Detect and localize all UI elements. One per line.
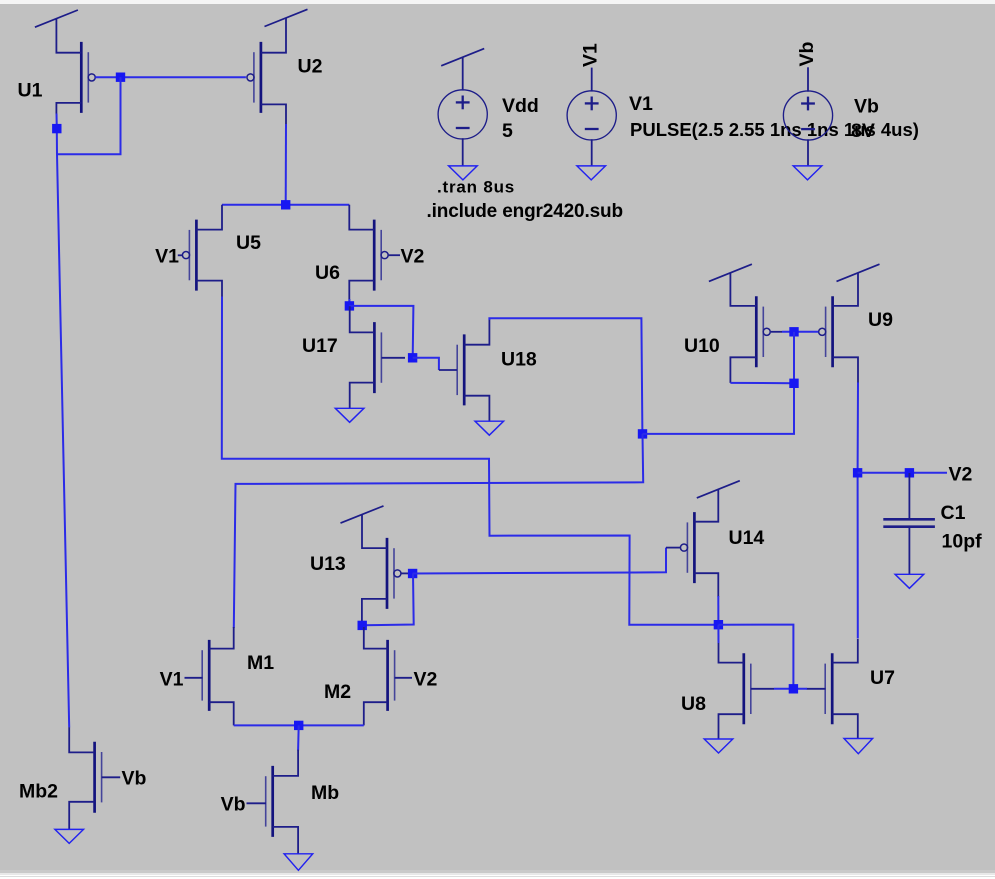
wire junction right and up to U10 drain node [643,383,795,434]
junction U10 drain node [789,379,798,388]
capacitor C1 [883,473,935,575]
svg-text:U6: U6 [315,262,340,284]
junction on U1 gate net [116,73,125,82]
transistor M2 (NMOS, mirrored) [364,627,412,725]
junction U18 drain net [638,429,647,438]
junction tail node [294,721,303,730]
svg-text:.include engr2420.sub: .include engr2420.sub [427,201,623,222]
junction U13 drain / M2 drain node [358,621,367,630]
transistor U1 (PMOS, mirrored) [56,19,95,115]
svg-text:U9: U9 [868,309,893,331]
svg-text:V2: V2 [401,246,425,268]
svg-text:M1: M1 [247,652,274,674]
wire U8/U7 gate node [774,688,807,690]
ground of Mb2 [55,829,84,843]
svg-text:V1: V1 [155,246,179,268]
junction U17 gate node [408,353,417,362]
wire tail node M1/M2 sources [234,724,364,726]
transistor U5 (PMOS) [182,205,222,298]
svg-text:U8: U8 [681,693,706,715]
svg-text:V1: V1 [160,669,184,691]
Vdd rail of U1 [35,10,78,27]
junction below U1 source [52,124,61,133]
wire top of U5/U6 pair [222,204,349,206]
ground of Mb [284,854,313,871]
wire U18 drain up and right to second-stage junction [489,318,642,434]
ground of Vb [793,166,822,180]
ground of U7 [844,739,873,754]
transistor Mb (NMOS) [247,750,299,854]
wire U14 drain node right then down to U8/U7 gate node [718,625,793,689]
svg-text:V1: V1 [629,93,653,115]
wire Vb bottom to ground [807,139,809,166]
wire U1 source down (long slanted run to Mb2 drain) [57,114,70,728]
wire U13 gate node down-left to U13/M2 drain node [362,574,414,626]
junction U14 drain node [714,620,723,629]
wire U14 drain down to node [717,596,719,625]
transistor U6 (PMOS, mirrored) [349,205,400,302]
ground of U18 [475,421,504,435]
wire V1 top lead [591,68,593,92]
svg-text:U14: U14 [729,527,765,549]
transistor Mb2 (NMOS, mirrored) [69,727,120,829]
svg-text:Mb2: Mb2 [19,781,58,803]
svg-text:U18: U18 [501,349,537,371]
junction U6 drain / U17 drain / mirror loop [345,301,354,310]
transistor U2 (PMOS) [247,18,286,125]
transistor M1 (NMOS) [185,627,234,725]
junction U2 drain / U5-U6 sources [281,200,290,209]
svg-text:M2: M2 [324,681,351,703]
Vdd rail of U9 [837,264,880,281]
svg-text:U2: U2 [298,56,323,78]
wire U5 drain long run to U14 drain node [222,297,719,625]
Vdd rail of U14 [697,481,740,498]
wire Vdd top to rail [462,57,464,90]
wire U9 drain down to output node and on to U7 drain [857,383,859,639]
wire Vb top lead [807,67,809,91]
transistor U18 (NMOS) [439,319,490,421]
Vdd rail symbol [441,49,484,66]
junction at C1 tap [905,468,914,477]
wire U13 gate node to U14 gate [413,548,666,574]
svg-text:U5: U5 [236,232,261,254]
wire U1 gate to U2 gate [95,76,246,78]
svg-text:Vb: Vb [854,96,879,118]
junction U8/U7 gate node [789,684,798,693]
voltage source V1 [567,91,616,140]
svg-text:Vb: Vb [221,794,246,816]
wire U17 gate node to U18 gate (with jog) [413,358,439,370]
svg-text:8V: 8V [851,120,875,142]
svg-text:U7: U7 [870,667,895,689]
ground of V1 [577,166,606,180]
ground of U17 [335,408,364,422]
transistor U14 (PMOS) [666,489,718,597]
svg-text:PULSE(2.5 2.55 1ns 1ns 1us 4us: PULSE(2.5 2.55 1ns 1ns 1us 4us) [630,119,919,140]
junction U10/U9 gate node [789,327,798,336]
voltage source Vb [783,91,832,140]
wire U10 drain loop [730,382,794,384]
svg-text:5: 5 [502,120,513,142]
svg-text:Vb: Vb [796,41,818,66]
voltage source Vdd [438,90,487,139]
wire mirror loop right then down to U17 gate node [349,306,413,358]
svg-text:U1: U1 [18,80,43,102]
junction output node [853,468,862,477]
svg-text:V2: V2 [414,669,438,691]
wire U6 drain to U17 drain and gate loop [348,299,350,306]
Vdd rail of U10 [709,264,752,281]
ground of C1 [895,574,924,588]
svg-text:Vdd: Vdd [502,95,539,117]
wire U10 gate node to U9 gate [782,331,818,333]
transistor U7 (NMOS) [807,639,858,739]
svg-text:V2: V2 [949,464,973,486]
svg-text:.tran 8us: .tran 8us [437,178,515,197]
wire junction down then left (long run to M1 drain) [234,434,643,628]
svg-text:U10: U10 [684,335,720,357]
junction U13 gate node [408,569,417,578]
wire U2 drain down to first-stage top rail node [285,124,287,205]
svg-text:V1: V1 [580,43,602,67]
Vdd rail of U13 [341,506,384,523]
svg-text:U17: U17 [302,335,338,357]
ground of U8 [704,739,733,753]
svg-text:C1: C1 [941,502,966,524]
wire U8 drain up to U14 drain node [717,625,719,643]
wire Vdd bottom to ground [462,138,464,166]
wire output node to V2 label [858,472,947,474]
Vdd rail of U2 [265,9,308,26]
transistor U8 (NMOS, mirrored) [719,642,775,739]
ground of Vdd [449,166,478,180]
svg-text:Mb: Mb [311,782,339,804]
transistor U17 (NMOS, mirrored, diode-connected) [350,306,405,408]
svg-text:Vb: Vb [122,768,147,790]
svg-text:U13: U13 [310,553,346,575]
net label V1 at U5 gate [178,254,183,256]
transistor U9 (PMOS) [819,273,858,383]
transistor U13 (PMOS, mirrored, diode-connected) [362,515,409,622]
wire tail node down to Mb drain [297,725,300,750]
wire V1 bottom to ground [591,139,593,166]
wire gate net down to U1 source net [57,77,121,154]
wire gate node down to U10 drain node [793,332,795,384]
transistor U10 (PMOS, mirrored, diode-connected) [730,273,782,383]
svg-text:10pf: 10pf [942,531,983,553]
